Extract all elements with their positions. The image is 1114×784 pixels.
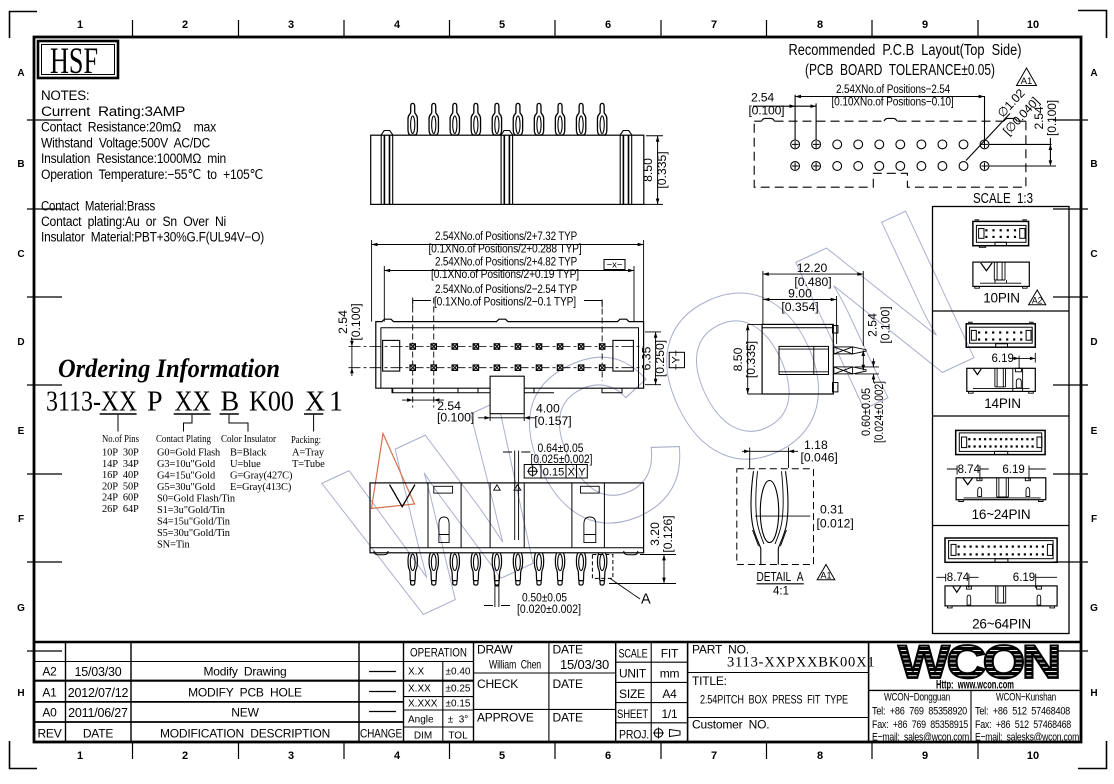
svg-text:XX: XX xyxy=(175,387,211,418)
svg-text:10: 10 xyxy=(1027,750,1039,762)
TOPVIEW-GROUP xyxy=(371,103,669,204)
svg-text:Fax: +86 769 85358915: Fax: +86 769 85358915 xyxy=(872,719,968,731)
svg-text:DATE: DATE xyxy=(553,643,584,657)
svg-text:TOL: TOL xyxy=(448,731,468,742)
svg-text:DIM: DIM xyxy=(414,731,432,742)
svg-text:F: F xyxy=(1091,514,1097,525)
26-64pin top view xyxy=(945,538,1057,562)
svg-text:DATE: DATE xyxy=(553,677,584,691)
leader line to hole dia xyxy=(966,114,1010,161)
operation block xyxy=(408,648,471,742)
peg post middle xyxy=(501,131,512,205)
svg-text:S4=15u"Gold/Tin: S4=15u"Gold/Tin xyxy=(157,517,231,528)
projection symbol xyxy=(653,728,680,739)
svg-text:6.19: 6.19 xyxy=(1013,572,1035,584)
dim 8.50 right of top view xyxy=(644,136,663,205)
svg-text:SIZE: SIZE xyxy=(619,687,645,701)
contact squares row 1 xyxy=(410,344,605,349)
right side dim 2.54 vertical xyxy=(989,138,1056,166)
svg-text:B=Black: B=Black xyxy=(230,448,267,459)
svg-text:P: P xyxy=(147,387,163,418)
svg-text:16~24PIN: 16~24PIN xyxy=(972,507,1031,522)
svg-text:REV: REV xyxy=(37,727,61,741)
svg-text:Customer NO.: Customer NO. xyxy=(692,718,769,732)
svg-text:15/03/30: 15/03/30 xyxy=(560,657,609,672)
svg-text:A=Tray: A=Tray xyxy=(292,448,325,459)
left ruler ticks xyxy=(27,120,62,651)
svg-text:16P 40P: 16P 40P xyxy=(102,470,139,481)
svg-text:5: 5 xyxy=(499,750,505,762)
svg-text:NEW: NEW xyxy=(231,706,259,720)
connector body top view xyxy=(371,135,644,204)
svg-text:7: 7 xyxy=(711,19,717,31)
svg-text:C: C xyxy=(1090,249,1097,260)
contact squares row 2 xyxy=(410,365,605,370)
svg-text:B: B xyxy=(221,387,240,418)
svg-text:[0.157]: [0.157] xyxy=(534,414,571,428)
svg-text:E: E xyxy=(18,426,25,437)
FRONTVIEW-GROUP xyxy=(336,229,685,428)
orange watermark triangle xyxy=(372,434,415,509)
center pin width line xyxy=(484,575,510,607)
detail A pin profile xyxy=(751,471,788,564)
svg-text:[0.10XNo.of Positions−0.10]: [0.10XNo.of Positions−0.10] xyxy=(832,95,954,109)
row center lines (dash-dot) xyxy=(349,347,644,368)
svg-text:G4=15u"Gold: G4=15u"Gold xyxy=(157,471,216,482)
press-fit pin lower xyxy=(834,367,866,374)
bottom ledge line xyxy=(370,547,644,549)
svg-text:PROJ.: PROJ. xyxy=(619,728,649,742)
svg-text:Contact Material:Brass: Contact Material:Brass xyxy=(41,199,155,214)
ORDERING-GROUP xyxy=(46,353,343,551)
dim line positions span xyxy=(795,96,984,98)
svg-text:E: E xyxy=(1091,426,1098,437)
svg-text:C: C xyxy=(17,249,24,260)
pcb board dashed outline xyxy=(754,121,1026,187)
svg-text:A: A xyxy=(17,68,24,79)
svg-text:H: H xyxy=(1090,688,1097,699)
svg-text:Contact Plating: Contact Plating xyxy=(156,433,211,445)
part number underlines xyxy=(100,413,324,415)
14pin front view xyxy=(967,368,1036,393)
svg-text:2.54: 2.54 xyxy=(866,313,880,337)
leader lines xyxy=(118,415,314,432)
svg-text:−Y−: −Y− xyxy=(671,350,683,370)
dim line pair2 xyxy=(384,270,634,272)
dashed detail box on last pin xyxy=(592,555,613,579)
svg-text:10PIN: 10PIN xyxy=(983,291,1020,306)
svg-text:± 3°: ± 3° xyxy=(448,715,469,726)
svg-text:±0.25: ±0.25 xyxy=(446,684,471,695)
svg-text:20P 50P: 20P 50P xyxy=(102,481,139,492)
revision rows xyxy=(37,665,402,741)
svg-text:WCON−Kunshan: WCON−Kunshan xyxy=(996,692,1056,704)
svg-text:0.31: 0.31 xyxy=(820,503,844,517)
dim 9.00 xyxy=(764,296,837,344)
corner mark bottom-right xyxy=(1078,741,1107,769)
svg-text:24P 60P: 24P 60P xyxy=(102,493,139,504)
internal arch left xyxy=(439,517,449,543)
svg-text:A4: A4 xyxy=(662,687,677,701)
svg-text:G5=30u"Gold: G5=30u"Gold xyxy=(157,482,216,493)
svg-text:[0.1XNo.of Positions/2+0.19 TY: [0.1XNo.of Positions/2+0.19 TYP] xyxy=(431,267,579,281)
svg-text:8.74: 8.74 xyxy=(947,572,970,584)
svg-text:Ordering Information: Ordering Information xyxy=(58,353,280,383)
bottom view body xyxy=(370,483,644,553)
10pin top view xyxy=(973,220,1029,247)
right dim 6.35 xyxy=(645,332,661,385)
scale block xyxy=(617,647,679,742)
side inner slot xyxy=(779,346,829,374)
insulator list xyxy=(230,448,292,494)
datum -Y- box rotated xyxy=(669,352,684,367)
top view contact pins row xyxy=(408,103,607,135)
svg-text:SN=Tin: SN=Tin xyxy=(157,540,191,551)
warning triangle A1 top xyxy=(1017,68,1037,87)
svg-text:TITLE:: TITLE: xyxy=(692,674,727,688)
HSF-GROUP xyxy=(38,41,118,82)
center pin through xyxy=(515,451,519,541)
svg-text:CHANGE: CHANGE xyxy=(360,729,402,741)
dim 2.54 right pins xyxy=(862,350,864,370)
svg-text:DETAIL A: DETAIL A xyxy=(757,570,805,584)
bottom pitch dim 2.54 xyxy=(402,399,444,401)
svg-text:HSF: HSF xyxy=(50,41,98,82)
svg-text:Insulator Material:PBT+30%G.F: Insulator Material:PBT+30%G.F(UL94V−O) xyxy=(41,230,264,245)
svg-text:A: A xyxy=(1090,68,1097,79)
pin1 V mark xyxy=(390,485,416,507)
svg-text:E=Gray(413C): E=Gray(413C) xyxy=(230,482,291,493)
draw/check/approve block xyxy=(477,643,609,725)
svg-text:2.54: 2.54 xyxy=(336,310,350,334)
svg-text:[0.335]: [0.335] xyxy=(655,151,669,188)
foot bump right xyxy=(624,551,638,555)
corner mark top-right xyxy=(1078,11,1107,39)
svg-text:26~64PIN: 26~64PIN xyxy=(972,617,1031,632)
corner mark top-left xyxy=(10,12,38,39)
box header outline with top bumps xyxy=(376,319,644,388)
svg-text:A2: A2 xyxy=(1032,296,1043,306)
svg-text:Recommended P.C.B Layout(Top: Recommended P.C.B Layout(Top Side) xyxy=(789,42,1022,59)
dimension stack extension lines xyxy=(372,240,644,322)
small triangles center xyxy=(494,485,521,490)
svg-text:±0.40: ±0.40 xyxy=(446,667,471,678)
svg-text:[0.046]: [0.046] xyxy=(801,451,838,465)
svg-text:Tel: +86 512 57468408: Tel: +86 512 57468408 xyxy=(975,706,1070,718)
dim 1.18 xyxy=(742,448,798,469)
internal top recesses xyxy=(434,486,453,493)
pin variants box xyxy=(933,207,1070,634)
svg-text:X: X xyxy=(568,467,576,479)
svg-text:2011/06/27: 2011/06/27 xyxy=(68,706,128,720)
side right tabs xyxy=(833,326,838,334)
svg-text:G: G xyxy=(1090,603,1098,614)
warning triangle A2 xyxy=(1029,290,1046,305)
svg-text:DATE: DATE xyxy=(553,711,584,725)
svg-text:12.20: 12.20 xyxy=(797,261,828,275)
svg-text:G3=10u"Gold: G3=10u"Gold xyxy=(157,459,216,470)
svg-text:1: 1 xyxy=(329,387,343,418)
svg-text:A: A xyxy=(641,592,651,608)
svg-text:8.50: 8.50 xyxy=(641,158,655,182)
foot bump left xyxy=(374,551,388,555)
svg-text:A0: A0 xyxy=(42,706,57,720)
svg-text:APPROVE: APPROVE xyxy=(477,711,534,725)
svg-text:[0.012]: [0.012] xyxy=(817,517,854,531)
svg-text:DRAW: DRAW xyxy=(477,643,513,657)
leader to A xyxy=(610,578,640,599)
BOTTOMVIEW-GROUP xyxy=(370,441,676,616)
svg-text:Tel: +86 769 85358920: Tel: +86 769 85358920 xyxy=(872,706,967,718)
svg-text:9: 9 xyxy=(922,19,928,31)
svg-text:OPERATION: OPERATION xyxy=(410,648,467,660)
top ruler ticks xyxy=(133,20,979,36)
press-fit pin upper xyxy=(834,347,866,354)
svg-text:26P 64P: 26P 64P xyxy=(102,504,139,515)
right key slot xyxy=(613,340,634,371)
svg-text:MODIFY PCB HOLE: MODIFY PCB HOLE xyxy=(188,686,302,700)
DETAILA-GROUP xyxy=(0,0,1,1)
svg-text:[0.100]: [0.100] xyxy=(1045,100,1059,136)
svg-text:±0.15: ±0.15 xyxy=(446,699,471,710)
svg-text:2.54: 2.54 xyxy=(1032,106,1046,129)
svg-text:Withstand Voltage:500V AC/DC: Withstand Voltage:500V AC/DC xyxy=(41,136,211,151)
left key slot xyxy=(383,340,400,371)
14pin top view xyxy=(966,322,1035,347)
detail A label xyxy=(757,570,805,584)
warning triangle A1 detail xyxy=(817,565,835,580)
svg-text:2.54PITCH BOX PRESS FIT TY: 2.54PITCH BOX PRESS FIT TYPE xyxy=(700,693,848,707)
svg-text:NOTES:: NOTES: xyxy=(41,88,89,103)
RIGHTCOL-GROUP xyxy=(933,207,1070,634)
svg-text:X.XXX: X.XXX xyxy=(408,699,438,710)
svg-text:3: 3 xyxy=(288,750,294,762)
side view top cap line xyxy=(762,327,833,329)
16-24pin dims xyxy=(947,466,1046,481)
column labels xyxy=(102,433,321,446)
pcb outline bumps xyxy=(762,118,1018,121)
svg-text:6: 6 xyxy=(605,19,611,31)
svg-text:H: H xyxy=(17,688,24,699)
svg-text:5: 5 xyxy=(499,19,505,31)
14pin dim 6.19 xyxy=(1012,353,1036,369)
svg-text:Operation Temperature:−55℃ t: Operation Temperature:−55℃ to +105℃ xyxy=(41,167,263,182)
dim 12.20 xyxy=(763,271,863,346)
svg-text:A2: A2 xyxy=(42,665,57,679)
svg-text:8: 8 xyxy=(817,750,823,762)
svg-text:10: 10 xyxy=(1027,19,1039,31)
svg-text:XX: XX xyxy=(101,387,137,418)
detail A taper hatch xyxy=(753,530,787,546)
svg-text:WCON−Dongguan: WCON−Dongguan xyxy=(884,692,950,704)
PCBLAYOUT-GROUP xyxy=(749,68,1060,207)
svg-text:SHEET: SHEET xyxy=(617,707,649,721)
dim 0.60 pin thickness xyxy=(855,359,879,383)
side view body xyxy=(762,324,833,394)
svg-text:A1: A1 xyxy=(1021,76,1033,87)
press pins row xyxy=(408,553,607,585)
svg-text:FIT: FIT xyxy=(661,647,679,661)
pcb holes row 1 xyxy=(791,140,989,149)
dim line pair1 xyxy=(372,244,644,246)
svg-text:G0=Gold Flash: G0=Gold Flash xyxy=(157,448,221,459)
svg-text:3: 3 xyxy=(288,19,294,31)
svg-text:U=blue: U=blue xyxy=(230,459,261,470)
16-24pin top view xyxy=(956,430,1045,454)
plated hole crosses xyxy=(792,141,988,170)
svg-text:Color Insulator: Color Insulator xyxy=(221,433,276,445)
svg-text:A1: A1 xyxy=(42,686,57,700)
dimension stack texts xyxy=(429,229,582,309)
svg-text:Http: www.wcon.com: Http: www.wcon.com xyxy=(936,680,1014,692)
svg-text:6.19: 6.19 xyxy=(1002,464,1024,476)
internal arch right xyxy=(584,517,596,543)
change dashes xyxy=(369,672,396,712)
WATERMARK-GROUP xyxy=(300,158,1009,675)
center tab dim 4.00 xyxy=(478,414,536,421)
svg-text:[0.1XNo.of Positions/2+0.288 T: [0.1XNo.of Positions/2+0.288 TYP] xyxy=(429,242,582,256)
plating list xyxy=(157,448,236,551)
svg-text:K00: K00 xyxy=(249,387,294,418)
svg-text:7: 7 xyxy=(711,750,717,762)
svg-text:No.of Pins: No.of Pins xyxy=(102,433,139,445)
svg-text:Packing:: Packing: xyxy=(291,434,321,446)
NOTES-GROUP xyxy=(41,88,264,245)
svg-text:6.35: 6.35 xyxy=(640,346,654,370)
PCBHEADER-GROUP xyxy=(789,42,1022,79)
svg-text:8.50: 8.50 xyxy=(731,347,745,371)
svg-text:[0.126]: [0.126] xyxy=(661,515,675,552)
svg-text:[0.335]: [0.335] xyxy=(744,341,758,378)
svg-text:S5=30u"Gold/Tin: S5=30u"Gold/Tin xyxy=(157,528,231,539)
svg-text:3.20: 3.20 xyxy=(648,522,662,546)
26-64pin front view xyxy=(945,586,1057,608)
pin thickness ticks xyxy=(503,451,530,453)
svg-text:MODIFICATION DESCRIPTION: MODIFICATION DESCRIPTION xyxy=(160,727,330,741)
svg-text:CHECK: CHECK xyxy=(477,677,518,691)
dim line 2.54 pitch xyxy=(753,105,816,107)
dim 0.64 texts xyxy=(531,441,593,466)
svg-text:4: 4 xyxy=(394,750,401,762)
svg-text:0.60±0.05: 0.60±0.05 xyxy=(859,388,873,436)
packing list xyxy=(292,448,325,471)
inner housing line xyxy=(381,328,639,388)
svg-text:[0.020±0.002]: [0.020±0.002] xyxy=(517,602,581,616)
svg-text:[0.100]: [0.100] xyxy=(879,306,893,343)
svg-text:9.00: 9.00 xyxy=(788,286,812,300)
svg-text:Insulation Resistance:1000MΩ: Insulation Resistance:1000MΩ min xyxy=(41,151,226,166)
dim 0.50 texts xyxy=(517,591,581,617)
svg-text:G: G xyxy=(17,603,25,614)
svg-text:X.XX: X.XX xyxy=(408,684,431,695)
dim 8.50 left xyxy=(748,324,762,394)
svg-text:D: D xyxy=(17,337,24,348)
svg-text:[0.250]: [0.250] xyxy=(653,340,667,377)
svg-text:T=Tube: T=Tube xyxy=(292,459,325,470)
svg-text:−x−: −x− xyxy=(607,260,623,271)
svg-text:1: 1 xyxy=(77,750,83,762)
svg-text:4: 4 xyxy=(394,19,401,31)
bottom ruler ticks xyxy=(133,743,979,759)
svg-text:[0.100]: [0.100] xyxy=(437,411,474,425)
svg-text:9: 9 xyxy=(922,750,928,762)
svg-text:F: F xyxy=(18,514,24,525)
svg-text:Modify Drawing: Modify Drawing xyxy=(203,665,286,679)
svg-text:3113-: 3113- xyxy=(46,387,101,418)
left pitch dim 2.54 xyxy=(351,338,353,376)
svg-text:1: 1 xyxy=(77,19,83,31)
dim extension lines xyxy=(795,95,984,140)
svg-text:15/03/30: 15/03/30 xyxy=(74,665,121,679)
corner mark bottom-left xyxy=(10,741,38,769)
svg-text:G=Gray(427C): G=Gray(427C) xyxy=(230,471,292,482)
detail A eye slot xyxy=(760,481,778,543)
svg-text:2: 2 xyxy=(182,750,188,762)
svg-text:S0=Gold Flash/Tin: S0=Gold Flash/Tin xyxy=(157,494,236,505)
svg-text:[0.354]: [0.354] xyxy=(781,300,818,314)
svg-text:S1=3u"Gold/Tin: S1=3u"Gold/Tin xyxy=(157,505,226,516)
svg-text:Y: Y xyxy=(578,467,586,479)
26-64pin dims xyxy=(936,574,1057,588)
svg-text:A1: A1 xyxy=(820,571,831,581)
svg-text:6: 6 xyxy=(605,750,611,762)
svg-text:Contact Resistance:20mΩ ma: Contact Resistance:20mΩ max xyxy=(41,120,216,135)
dim 3.20 right xyxy=(609,555,676,584)
svg-text:2: 2 xyxy=(182,19,188,31)
svg-text:X.X: X.X xyxy=(408,667,424,678)
svg-text:Fax: +86 512 57468468: Fax: +86 512 57468468 xyxy=(975,719,1071,731)
svg-text:B: B xyxy=(17,159,24,170)
svg-text:8.74: 8.74 xyxy=(958,464,981,476)
svg-text:Contact plating:Au or Sn O: Contact plating:Au or Sn Over Ni xyxy=(41,214,226,229)
svg-text:SCALE 1:3: SCALE 1:3 xyxy=(973,191,1033,207)
svg-text:[0.100]: [0.100] xyxy=(749,103,785,117)
svg-text:UNIT: UNIT xyxy=(619,667,647,681)
SIDEVIEW-GROUP xyxy=(731,261,893,443)
svg-text:[0.1XNo.of Positions/2−0.1 TYP: [0.1XNo.of Positions/2−0.1 TYP] xyxy=(434,295,576,309)
svg-text:B: B xyxy=(1090,159,1097,170)
part no block xyxy=(692,643,875,732)
svg-text:(PCB BOARD TOLERANCE±0.05): (PCB BOARD TOLERANCE±0.05) xyxy=(805,62,995,79)
svg-text:Angle: Angle xyxy=(408,715,434,726)
svg-text:E−mail: sales@wcon.com: E−mail: sales@wcon.com xyxy=(872,732,969,744)
TITLEBLOCK-GROUP xyxy=(34,635,1081,744)
datum -X- box xyxy=(604,260,625,270)
GDT frame xyxy=(524,465,587,479)
right ruler ticks xyxy=(1053,120,1088,651)
dim line pair3 xyxy=(413,301,602,308)
16-24pin front view xyxy=(956,478,1046,502)
10pin front view xyxy=(973,262,1029,288)
svg-text:[0.024±0.002]: [0.024±0.002] xyxy=(872,381,886,443)
detail A center leader xyxy=(755,515,810,517)
left ruler letters xyxy=(17,68,1098,699)
svg-text:2012/07/12: 2012/07/12 xyxy=(68,686,129,700)
svg-text:3113-XXPXXBK00X1: 3113-XXPXXBK00X1 xyxy=(727,655,875,671)
svg-text:10P 30P: 10P 30P xyxy=(102,448,139,459)
peg post right xyxy=(620,131,632,205)
svg-text:William Chen: William Chen xyxy=(489,658,541,672)
pcb dim texts xyxy=(749,82,1060,138)
center polarization tab xyxy=(490,376,524,414)
bottom edge tabs xyxy=(392,388,622,393)
svg-text:0.15: 0.15 xyxy=(543,467,564,479)
peg post left xyxy=(381,131,393,205)
svg-text:X: X xyxy=(305,387,325,418)
title block grid xyxy=(34,642,1081,743)
part number line xyxy=(46,387,343,418)
svg-text:14PIN: 14PIN xyxy=(984,396,1021,411)
